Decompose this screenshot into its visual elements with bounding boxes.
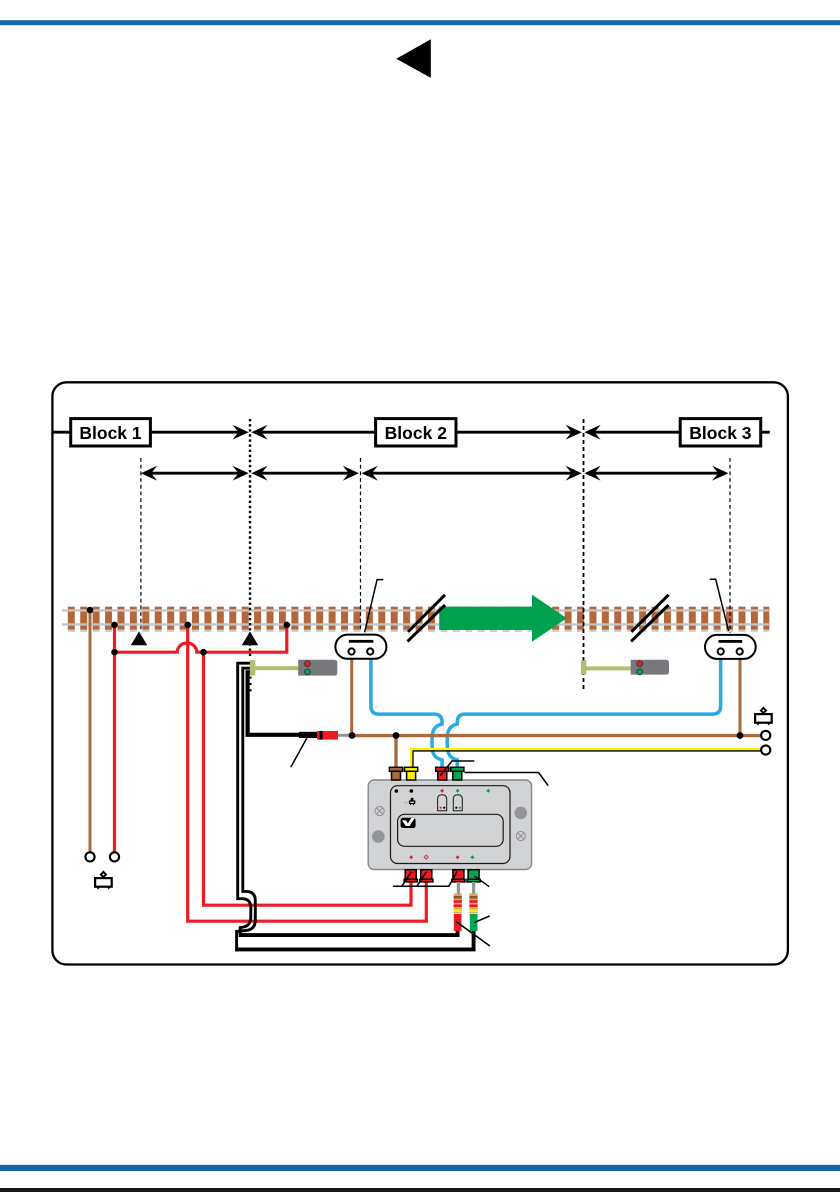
- wire stub left of Block 1: [52, 431, 70, 434]
- dimension arrow row: [151, 472, 719, 475]
- right signal mast: [581, 660, 586, 674]
- Block 1 box: [71, 419, 151, 446]
- bottom plug red 3: [452, 870, 465, 882]
- rail gap slashes right: [631, 595, 669, 642]
- top plug green: [451, 767, 464, 780]
- blue wire from left track contact to module: [371, 656, 442, 769]
- back navigation triangle: [396, 39, 431, 78]
- top header rule: [0, 20, 840, 25]
- thin dashed divider x=141: [140, 458, 142, 632]
- left signal green lamp: [305, 669, 311, 675]
- driving direction arrow: [439, 595, 567, 642]
- face bottom indicators: [409, 855, 413, 859]
- span line brake section block2: [262, 472, 350, 475]
- cable strand stubs: [248, 678, 252, 691]
- left mounting hole: [372, 830, 385, 843]
- span line block3 section: [595, 472, 719, 475]
- rail top: [62, 609, 770, 611]
- yellow wire shadow: [413, 751, 765, 768]
- callout to left track contact: [365, 580, 384, 633]
- junction dots on rails: [87, 607, 94, 614]
- callout red terminal block: [456, 922, 490, 947]
- bottom footer rule: [0, 1165, 840, 1171]
- switch outline 2: [453, 795, 462, 811]
- row2 arrowheads: [141, 466, 157, 481]
- MODULE body: [368, 780, 531, 870]
- junction dots red bus: [111, 649, 118, 656]
- terminal circles right: [761, 731, 770, 740]
- brown wire from left contact: [350, 655, 353, 736]
- gray lead to brown bus: [338, 734, 352, 737]
- block row line Block2-divider: [456, 431, 572, 434]
- callout bottom plugs: [393, 872, 457, 887]
- svg-text:Block 1: Block 1: [79, 423, 142, 443]
- callout to plug connector: [291, 738, 307, 767]
- rail bottom: [62, 623, 770, 625]
- module face panel: [391, 786, 511, 864]
- span line block1 section: [151, 472, 239, 475]
- span line travel section block2: [372, 472, 572, 475]
- insulated joint triangle left: [131, 632, 147, 646]
- svg-text:Block 2: Block 2: [385, 423, 448, 443]
- track sleepers: [64, 607, 770, 632]
- top plug brown: [389, 767, 402, 780]
- rail gap slashes left: [408, 595, 446, 642]
- left track contact: [335, 635, 386, 659]
- signal cable wire 2 vertical run with jog: [237, 668, 256, 951]
- red feeder wire left (to terminal): [113, 625, 116, 852]
- bottom page edge: [0, 1188, 840, 1192]
- blue wire from right track contact to module: [447, 656, 720, 769]
- bottom plug red 1: [404, 870, 417, 882]
- green terminal block: [470, 914, 478, 931]
- gray lead resistor 1: [457, 882, 460, 894]
- callout bottom green plug: [474, 876, 489, 887]
- callout top red plug: [441, 761, 475, 776]
- block row line divider-Block3: [595, 431, 681, 434]
- red diamond indicator: [440, 789, 444, 793]
- face top indicator dots: [395, 789, 399, 793]
- brown supply bus: [352, 734, 765, 737]
- green diamond indicator 2: [486, 789, 490, 793]
- svg-text:Block 3: Block 3: [689, 423, 752, 443]
- terminal circles left: [85, 852, 94, 861]
- thin dashed divider x=730: [729, 458, 731, 633]
- label plate: [398, 814, 504, 846]
- black plug sleeve: [299, 732, 317, 738]
- top plug red: [436, 767, 449, 780]
- right screw: [516, 831, 525, 840]
- brown drop to module plug: [394, 736, 397, 769]
- thin dashed divider x=360.5: [360, 458, 362, 632]
- callout to right track contact: [710, 579, 729, 631]
- right mounting hole: [515, 807, 528, 820]
- right signal green lamp: [637, 669, 643, 675]
- yellow supply wire: [411, 749, 765, 768]
- Block 3 box: [680, 419, 761, 446]
- gray lead resistor 2: [472, 882, 475, 894]
- signal cable wire 3 to plug: [248, 672, 300, 735]
- signal cable wire 2 horizontal run to green terminal: [235, 929, 473, 949]
- left signal head: [298, 660, 337, 676]
- block row line Block1-divider: [150, 431, 238, 434]
- left signal mast: [250, 660, 255, 675]
- bottom plug red 2: [420, 870, 433, 882]
- diagram frame: [52, 382, 788, 964]
- right signal red lamp: [637, 661, 643, 667]
- junction dots brown bus: [349, 732, 356, 739]
- transformer icon right: [755, 708, 772, 726]
- red bus under track with hop: [115, 625, 287, 652]
- transformer icon left: [95, 872, 112, 890]
- brown feeder wire top rail left: [89, 610, 92, 852]
- thick dotted divider x=250: [249, 419, 251, 658]
- brown wire from right contact: [739, 655, 742, 736]
- insulated joint triangle right: [242, 632, 258, 646]
- right signal head: [631, 660, 669, 675]
- mini transformer icon: [405, 798, 416, 805]
- Block 2 box: [376, 419, 456, 446]
- resistor 1: [454, 894, 462, 914]
- red wire junction to relay output 1: [204, 652, 412, 905]
- callout green terminal block: [475, 916, 490, 922]
- block row line divider-Block2: [262, 431, 376, 434]
- callout top green plug: [465, 773, 549, 786]
- top plug yellow: [405, 767, 418, 780]
- right track contact: [705, 635, 756, 659]
- resistor 2: [469, 894, 477, 914]
- left screw: [375, 806, 384, 815]
- green diamond indicator: [456, 789, 460, 793]
- switch outline 1: [438, 795, 447, 811]
- Viessmann logo: [401, 818, 416, 828]
- red feeder wire middle to relay output 2: [188, 625, 427, 921]
- red terminal block: [454, 914, 462, 931]
- signal cable wire 1 vertical run with jog: [238, 663, 251, 937]
- bottom plug green: [467, 870, 480, 882]
- red plug connector: [317, 731, 338, 740]
- thin dashed divider x=583.5: [583, 419, 585, 692]
- wire stub right of Block 3: [761, 431, 770, 434]
- signal cable wire 1 horizontal run to red terminal: [239, 929, 458, 935]
- row1 arrowheads: [233, 425, 249, 440]
- block label row: [52, 431, 769, 434]
- left signal red lamp: [305, 661, 311, 667]
